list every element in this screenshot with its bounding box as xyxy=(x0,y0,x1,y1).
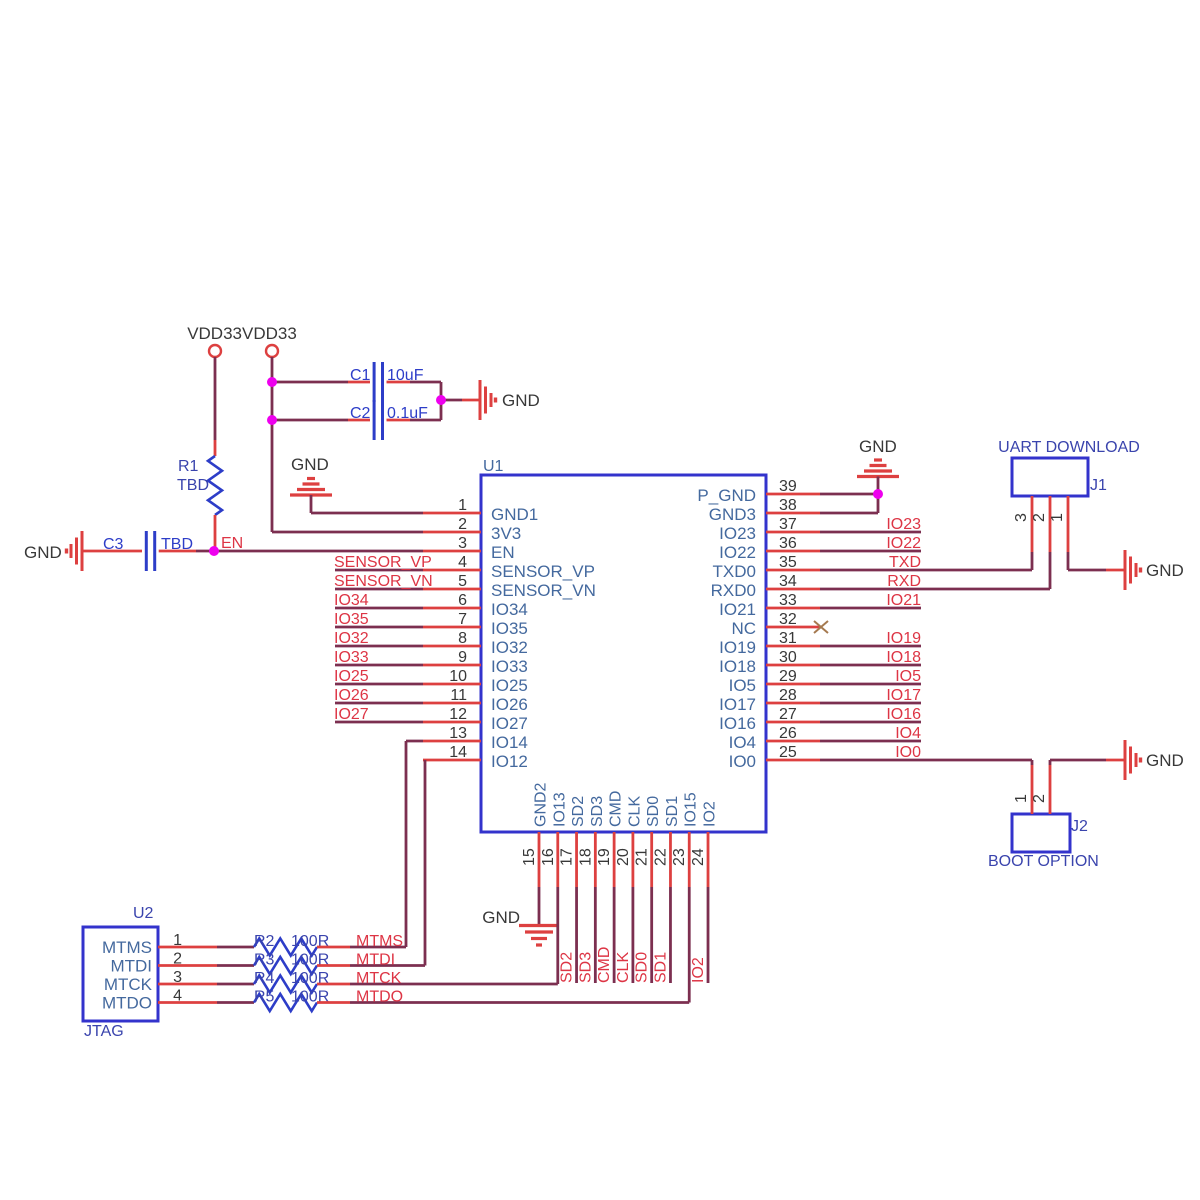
svg-text:J1: J1 xyxy=(1090,477,1107,494)
svg-text:IO15: IO15 xyxy=(683,792,700,827)
U1 pin 33 number xyxy=(779,592,797,609)
resistor R3 value 100R xyxy=(291,952,329,969)
svg-text:38: 38 xyxy=(779,497,797,514)
svg-text:C2: C2 xyxy=(350,405,371,422)
net label IO35 xyxy=(334,611,369,628)
net label SENSOR_VP xyxy=(334,554,432,571)
U1 pin 25 number xyxy=(779,744,797,761)
wire net MTCK xyxy=(350,983,558,986)
U1 pin 10 name IO25 xyxy=(491,676,528,695)
U2 title JTAG xyxy=(84,1023,124,1040)
svg-text:3: 3 xyxy=(173,969,182,986)
capacitor C2 left stub xyxy=(348,419,370,422)
ground symbol pyramid (P_GND) xyxy=(857,460,899,477)
ground stub at C1C2 xyxy=(462,399,479,402)
U1 pin 32 name NC xyxy=(731,619,756,638)
U1 pin 34 number xyxy=(779,573,797,590)
svg-text:IO23: IO23 xyxy=(886,516,921,533)
svg-text:GND: GND xyxy=(291,455,329,474)
svg-text:IO0: IO0 xyxy=(729,752,756,771)
svg-text:1: 1 xyxy=(458,497,467,514)
U1 pin 18 number xyxy=(577,848,594,866)
wire net IO4 (U1 pin 26) xyxy=(820,740,921,743)
U1 pin 38 name GND3 xyxy=(709,505,756,524)
U1 pin 37 stub xyxy=(766,531,820,534)
net label IO33 xyxy=(334,649,369,666)
resistor R4 body xyxy=(254,976,317,993)
net label IO0 xyxy=(895,744,921,761)
U2 pin 3 stub xyxy=(158,983,217,986)
svg-text:IO27: IO27 xyxy=(491,714,528,733)
U2 pin 3 number xyxy=(173,969,182,986)
wire U2 to R3 xyxy=(217,964,254,967)
svg-text:SENSOR_VP: SENSOR_VP xyxy=(491,562,595,581)
svg-text:IO27: IO27 xyxy=(334,706,369,723)
wire gnd pyramid to node xyxy=(877,477,880,495)
ground label GND (C1 C2) xyxy=(502,391,540,410)
U1 pin 31 number xyxy=(779,630,797,647)
U1 pin 25 stub xyxy=(766,759,820,762)
svg-text:VDD33: VDD33 xyxy=(242,324,297,343)
U1 pin 18 name SD3 xyxy=(589,796,606,827)
wire U1 pin14 to MTDI net xyxy=(424,760,427,966)
svg-text:IO33: IO33 xyxy=(334,649,369,666)
U1 pin 31 name IO19 xyxy=(719,638,756,657)
U1 pin 26 stub xyxy=(766,740,820,743)
U1 pin 21 stub xyxy=(650,832,653,887)
svg-text:P_GND: P_GND xyxy=(697,486,756,505)
U1 pin 31 stub xyxy=(766,645,820,648)
svg-text:MTMS: MTMS xyxy=(356,933,403,950)
net label IO16 xyxy=(886,706,921,723)
capacitor C2 value 0.1uF xyxy=(387,405,428,422)
svg-text:R3: R3 xyxy=(254,952,275,969)
U1 pin 13 name IO14 xyxy=(491,733,528,752)
U1 pin 29 name IO5 xyxy=(729,676,756,695)
capacitor C3 body xyxy=(146,531,154,571)
U1 pin 21 name SD0 xyxy=(645,796,662,827)
U1 pin 13 stub xyxy=(423,740,481,743)
wire J1 pin2 to RXD xyxy=(1049,552,1052,589)
svg-text:C1: C1 xyxy=(350,367,371,384)
U1 pin 37 number xyxy=(779,516,797,533)
U1 refdes label xyxy=(483,458,504,475)
svg-text:IO22: IO22 xyxy=(886,535,921,552)
ground symbol (J2) xyxy=(1125,740,1141,780)
capacitor C1 left stub xyxy=(348,381,370,384)
wire J1 pin3 to TXD xyxy=(1031,552,1034,570)
U1 pin 19 stub xyxy=(613,832,616,887)
svg-text:35: 35 xyxy=(779,554,797,571)
svg-text:IO13: IO13 xyxy=(551,792,568,827)
svg-text:SD1: SD1 xyxy=(652,952,669,983)
svg-text:MTDO: MTDO xyxy=(356,989,403,1006)
svg-text:20: 20 xyxy=(615,848,632,866)
net label MTCK xyxy=(356,970,402,987)
svg-text:GND2: GND2 xyxy=(533,782,550,827)
wire U2 to R4 xyxy=(217,983,254,986)
U1 pin 23 name IO15 xyxy=(683,792,700,827)
svg-text:7: 7 xyxy=(458,611,467,628)
U1 pin 16 name IO13 xyxy=(551,792,568,827)
U1 pin 11 stub xyxy=(423,702,481,705)
wire net RXD (U1 pin 34) xyxy=(820,588,1050,591)
svg-text:IO33: IO33 xyxy=(491,657,528,676)
net label IO32 xyxy=(334,630,369,647)
svg-text:MTDI: MTDI xyxy=(356,952,395,969)
wire net IO34 (U1 pin 6) xyxy=(335,607,423,610)
resistor R4 value 100R xyxy=(291,970,329,987)
net label IO22 xyxy=(886,535,921,552)
U1 pin 24 number xyxy=(690,848,707,866)
U1 pin 6 name IO34 xyxy=(491,600,528,619)
svg-text:GND: GND xyxy=(1146,561,1184,580)
wire net SD3 (U1 pin 18) xyxy=(594,887,597,983)
wire VDD33 right down to C1 node xyxy=(271,357,274,382)
svg-text:TBD: TBD xyxy=(177,477,209,494)
svg-text:GND: GND xyxy=(482,908,520,927)
wire net IO19 (U1 pin 31) xyxy=(820,645,921,648)
net label IO23 xyxy=(886,516,921,533)
net label CMD xyxy=(596,947,613,983)
J1 pin 2 number xyxy=(1031,513,1048,522)
svg-text:21: 21 xyxy=(634,848,651,866)
J2 title BOOT OPTION xyxy=(988,853,1099,870)
capacitor C1 body xyxy=(374,362,382,402)
capacitor C2 refdes xyxy=(350,405,371,422)
wire C1-C2 right vertical join xyxy=(440,382,443,420)
wire net IO25 (U1 pin 10) xyxy=(335,683,423,686)
svg-text:SD1: SD1 xyxy=(664,796,681,827)
U1 pin 9 number xyxy=(458,649,467,666)
net label EN xyxy=(221,535,243,552)
U1 pin 24 stub xyxy=(707,832,710,887)
U1 pin 27 stub xyxy=(766,721,820,724)
net label IO26 xyxy=(334,687,369,704)
U1 pin 28 name IO17 xyxy=(719,695,756,714)
J2 pin 2 stub xyxy=(1049,765,1052,814)
svg-text:BOOT OPTION: BOOT OPTION xyxy=(988,853,1099,870)
svg-text:U1: U1 xyxy=(483,458,504,475)
power flag VDD33 circle (left) xyxy=(209,345,221,357)
svg-text:29: 29 xyxy=(779,668,797,685)
U1 pin 22 name SD1 xyxy=(664,796,681,827)
svg-text:34: 34 xyxy=(779,573,797,590)
svg-text:CMD: CMD xyxy=(596,947,613,983)
capacitor C1 right stub xyxy=(387,381,411,384)
U1 pin 1 number xyxy=(458,497,467,514)
svg-text:SD3: SD3 xyxy=(589,796,606,827)
wire net MTDI xyxy=(350,964,425,967)
net label MTDI xyxy=(356,952,395,969)
svg-text:30: 30 xyxy=(779,649,797,666)
svg-text:15: 15 xyxy=(521,848,538,866)
J1 title UART DOWNLOAD xyxy=(998,439,1140,456)
wire net IO2 (U1 pin 24) xyxy=(707,887,710,983)
U1 pin 34 stub xyxy=(766,588,820,591)
svg-text:IO2: IO2 xyxy=(702,801,719,827)
svg-text:EN: EN xyxy=(221,535,243,552)
svg-text:MTDO: MTDO xyxy=(102,994,152,1013)
wire gnd to pin1 corner xyxy=(311,495,423,513)
wire net IO0 (U1 pin 25) xyxy=(820,759,1032,762)
U1 pin 29 stub xyxy=(766,683,820,686)
junction node C1-C2 gnd xyxy=(436,395,446,405)
U1 pin 13 number xyxy=(449,725,467,742)
svg-text:CLK: CLK xyxy=(615,952,632,983)
U1 pin 20 stub xyxy=(632,832,635,887)
svg-text:3: 3 xyxy=(458,535,467,552)
ground label GND (GND2) xyxy=(482,908,520,927)
svg-text:CLK: CLK xyxy=(626,796,643,827)
U1 pin 21 number xyxy=(634,848,651,866)
U1 pin 32 stub xyxy=(766,626,820,629)
U1 pin 20 name CLK xyxy=(626,796,643,827)
svg-text:1: 1 xyxy=(1049,513,1066,522)
svg-text:RXD: RXD xyxy=(887,573,921,590)
wire join to GND symbol xyxy=(441,399,462,402)
wire net CLK (U1 pin 20) xyxy=(632,887,635,983)
resistor R3 right stub xyxy=(317,964,350,967)
U1 pin 36 number xyxy=(779,535,797,552)
U1 pin 33 name IO21 xyxy=(719,600,756,619)
svg-text:R4: R4 xyxy=(254,970,275,987)
svg-text:IO26: IO26 xyxy=(334,687,369,704)
U1 pin 1 stub xyxy=(423,512,481,515)
capacitor C3 right stub xyxy=(159,550,196,553)
U1 pin 25 name IO0 xyxy=(729,752,756,771)
svg-text:SD3: SD3 xyxy=(577,952,594,983)
resistor R3 body xyxy=(254,957,317,974)
J2 pin 1 stub xyxy=(1031,765,1034,814)
resistor R2 refdes xyxy=(254,933,275,950)
net label IO21 xyxy=(886,592,921,609)
U2 pin 2 stub xyxy=(158,964,217,967)
wire C1 node to C2 node xyxy=(271,382,274,420)
net label IO19 xyxy=(886,630,921,647)
U1 pin 8 number xyxy=(458,630,467,647)
U2 refdes xyxy=(133,905,154,922)
svg-text:IO16: IO16 xyxy=(886,706,921,723)
U2 pin 4 stub xyxy=(158,1001,217,1004)
U1 pin 37 name IO23 xyxy=(719,524,756,543)
net label IO17 xyxy=(886,687,921,704)
net label IO4 xyxy=(895,725,921,742)
U1 pin 5 stub xyxy=(423,588,481,591)
resistor R1 top pin stub xyxy=(214,440,217,456)
J2 refdes xyxy=(1071,818,1088,835)
svg-text:32: 32 xyxy=(779,611,797,628)
U1 pin 3 name EN xyxy=(491,543,515,562)
U2 pin 1 name MTMS xyxy=(102,938,152,957)
wire net IO5 (U1 pin 29) xyxy=(820,683,921,686)
U1 pin 20 number xyxy=(615,848,632,866)
resistor R3 refdes xyxy=(254,952,275,969)
wire net MTMS xyxy=(350,946,406,949)
ground stub J1 xyxy=(1106,569,1124,572)
U1 pin 23 stub xyxy=(688,832,691,887)
svg-text:4: 4 xyxy=(173,988,182,1005)
ground symbol inverted pyramid (GND2) xyxy=(519,926,559,946)
svg-text:3V3: 3V3 xyxy=(491,524,521,543)
svg-text:4: 4 xyxy=(458,554,467,571)
connector U2 outline xyxy=(83,927,158,1021)
wire net IO22 (U1 pin 36) xyxy=(820,550,921,553)
svg-text:GND: GND xyxy=(859,437,897,456)
U1 pin 38 stub xyxy=(766,512,820,515)
wire net IO18 (U1 pin 30) xyxy=(820,664,921,667)
net label IO2 xyxy=(690,957,707,983)
wire net IO23 (U1 pin 37) xyxy=(820,531,921,534)
svg-text:2: 2 xyxy=(1031,794,1048,803)
wire U1 pin23 to MTDO row xyxy=(688,887,691,1003)
wire net IO32 (U1 pin 8) xyxy=(335,645,423,648)
U1 pin 33 stub xyxy=(766,607,820,610)
svg-text:39: 39 xyxy=(779,478,797,495)
wire net IO17 (U1 pin 28) xyxy=(820,702,921,705)
U1 pin 8 stub xyxy=(423,645,481,648)
svg-text:IO32: IO32 xyxy=(491,638,528,657)
svg-text:MTCK: MTCK xyxy=(356,970,402,987)
svg-text:11: 11 xyxy=(450,687,467,704)
resistor R4 right stub xyxy=(317,983,350,986)
svg-text:31: 31 xyxy=(779,630,797,647)
U1 pin 12 number xyxy=(449,706,467,723)
net label IO5 xyxy=(895,668,921,685)
U1 pin 5 number xyxy=(458,573,467,590)
svg-text:1: 1 xyxy=(1013,794,1030,803)
U1 pin 36 name IO22 xyxy=(719,543,756,562)
svg-text:IO19: IO19 xyxy=(719,638,756,657)
U1 pin 18 stub xyxy=(594,832,597,887)
net label TXD xyxy=(889,554,921,571)
U1 pin 7 name IO35 xyxy=(491,619,528,638)
U1 pin 9 stub xyxy=(423,664,481,667)
svg-text:SD0: SD0 xyxy=(634,952,651,983)
wire U1 pin16 to MTCK row xyxy=(556,887,559,984)
svg-text:IO23: IO23 xyxy=(719,524,756,543)
ground label GND (C3) xyxy=(24,543,62,562)
junction node EN xyxy=(209,546,219,556)
svg-text:3: 3 xyxy=(1013,513,1030,522)
J1 pin 1 number xyxy=(1049,513,1066,522)
svg-text:14: 14 xyxy=(449,744,467,761)
U1 pin 34 name RXD0 xyxy=(711,581,756,600)
svg-text:IO14: IO14 xyxy=(491,733,528,752)
svg-text:16: 16 xyxy=(540,848,557,866)
U1 pin 6 stub xyxy=(423,607,481,610)
wire C1 row right xyxy=(410,381,441,384)
J1 pin 3 number xyxy=(1013,513,1030,522)
resistor R5 value 100R xyxy=(291,989,329,1006)
svg-text:SENSOR_VN: SENSOR_VN xyxy=(491,581,596,600)
U1 pin 17 name SD2 xyxy=(570,796,587,827)
U1 pin 16 stub xyxy=(556,832,559,887)
wire net IO33 (U1 pin 9) xyxy=(335,664,423,667)
U1 pin 39 stub xyxy=(766,493,820,496)
svg-text:RXD0: RXD0 xyxy=(711,581,756,600)
svg-text:36: 36 xyxy=(779,535,797,552)
svg-text:IO25: IO25 xyxy=(491,676,528,695)
svg-text:J2: J2 xyxy=(1071,818,1088,835)
U1 pin 14 name IO12 xyxy=(491,752,528,771)
U1 pin 4 number xyxy=(458,554,467,571)
svg-text:SD0: SD0 xyxy=(645,796,662,827)
U1 pin 30 name IO18 xyxy=(719,657,756,676)
wire GND3 pin38 xyxy=(820,494,878,513)
U1 pin 8 name IO32 xyxy=(491,638,528,657)
ground label GND (J1) xyxy=(1146,561,1184,580)
svg-text:IO34: IO34 xyxy=(334,592,369,609)
svg-text:26: 26 xyxy=(779,725,797,742)
U1 pin 3 stub xyxy=(423,550,481,553)
wire net IO16 (U1 pin 27) xyxy=(820,721,921,724)
ground symbol (C3, pointing left) xyxy=(67,531,83,571)
svg-text:JTAG: JTAG xyxy=(84,1023,124,1040)
U1 pin 6 number xyxy=(458,592,467,609)
svg-text:MTMS: MTMS xyxy=(102,938,152,957)
U1 pin 12 name IO27 xyxy=(491,714,528,733)
svg-text:2: 2 xyxy=(1031,513,1048,522)
resistor R1 value TBD xyxy=(177,477,209,494)
wire IO0 down to J2 pin1 xyxy=(1031,760,1034,765)
ground stub J2 xyxy=(1106,759,1124,762)
net label MTDO xyxy=(356,989,403,1006)
svg-text:C3: C3 xyxy=(103,536,124,553)
svg-text:IO19: IO19 xyxy=(886,630,921,647)
ground symbol (C1 C2) xyxy=(480,380,496,420)
net label SD3 xyxy=(577,952,594,983)
wire P_GND pin39 xyxy=(820,493,878,496)
svg-text:6: 6 xyxy=(458,592,467,609)
capacitor C2 body xyxy=(374,400,382,440)
U1 pin 11 name IO26 xyxy=(491,695,528,714)
svg-text:R1: R1 xyxy=(178,458,199,475)
ground label GND (U1 pin1) xyxy=(291,455,329,474)
net label RXD xyxy=(887,573,921,590)
U1 pin 28 stub xyxy=(766,702,820,705)
svg-text:9: 9 xyxy=(458,649,467,666)
J1 pin 2 stub xyxy=(1049,496,1052,552)
U1 pin 5 name SENSOR_VN xyxy=(491,581,596,600)
svg-text:IO4: IO4 xyxy=(895,725,921,742)
svg-text:33: 33 xyxy=(779,592,797,609)
wire C3 gnd stub xyxy=(82,550,142,553)
connector J2 outline xyxy=(1012,814,1070,852)
resistor R2 body xyxy=(254,939,317,956)
U1 pin 2 number xyxy=(458,516,467,533)
svg-text:13: 13 xyxy=(449,725,467,742)
svg-text:SENSOR_VN: SENSOR_VN xyxy=(334,573,433,590)
svg-text:23: 23 xyxy=(671,848,688,866)
wire U1 pin13 to MTMS net xyxy=(406,741,423,947)
U1 pin 35 name TXD0 xyxy=(713,562,756,581)
svg-text:IO17: IO17 xyxy=(886,687,921,704)
svg-text:TXD: TXD xyxy=(889,554,921,571)
svg-text:SD2: SD2 xyxy=(570,796,587,827)
svg-text:27: 27 xyxy=(779,706,797,723)
svg-text:SD2: SD2 xyxy=(559,952,576,983)
svg-text:12: 12 xyxy=(449,706,467,723)
ESP32 module U1 outline xyxy=(481,475,766,832)
net label SD1 xyxy=(652,952,669,983)
U1 pin 26 name IO4 xyxy=(729,733,756,752)
svg-text:22: 22 xyxy=(652,848,669,866)
svg-text:2: 2 xyxy=(458,516,467,533)
U1 pin 4 stub xyxy=(423,569,481,572)
resistor R1 body xyxy=(208,456,222,515)
U1 pin 7 number xyxy=(458,611,467,628)
